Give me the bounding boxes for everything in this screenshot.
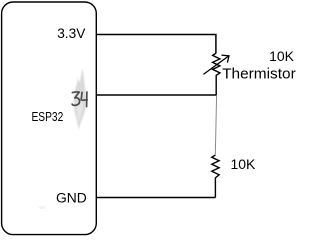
faint speck bbox=[39, 206, 46, 209]
resistor R1 10K zigzag bbox=[212, 155, 219, 198]
wire pin 34 to divider node bbox=[96, 94, 216, 96]
svg-text:10K: 10K bbox=[231, 157, 256, 173]
ESP32 module U1 bbox=[2, 2, 97, 235]
svg-text:Thermistor: Thermistor bbox=[222, 67, 296, 83]
pin number 34 (handwritten) bbox=[72, 92, 87, 107]
svg-text:10K: 10K bbox=[269, 49, 294, 65]
svg-text:ESP32: ESP32 bbox=[32, 109, 64, 124]
wire 3.3V to thermistor bbox=[96, 35, 216, 54]
thermistor arrow bbox=[203, 55, 229, 74]
wire GND bbox=[96, 197, 215, 199]
svg-text:GND: GND bbox=[56, 190, 87, 206]
svg-text:3.3V: 3.3V bbox=[57, 25, 86, 41]
eraser smudge behind pin 34 bbox=[74, 68, 86, 131]
wire node to resistor (gray connector) bbox=[215, 96, 216, 155]
thermistor RT1 zigzag bbox=[213, 53, 220, 95]
